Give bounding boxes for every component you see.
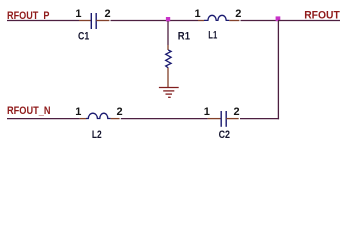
svg-text:2: 2	[105, 8, 111, 20]
wire L1 to junction B	[241, 20, 279, 22]
svg-text:1: 1	[204, 106, 210, 118]
wire bottom rail left (RFOUT_N to L2)	[7, 118, 80, 120]
svg-text:2: 2	[116, 106, 122, 118]
svg-text:1: 1	[75, 106, 81, 118]
wire L2 to C2	[121, 118, 208, 120]
wire R1 pin2 stub	[167, 68, 169, 88]
junction at node B	[276, 16, 281, 21]
capacitor C1	[91, 13, 96, 29]
junction at node A	[166, 17, 170, 22]
svg-text:1: 1	[75, 8, 81, 20]
svg-text:C2: C2	[219, 129, 230, 141]
wire C1 pin2 stub	[96, 20, 109, 22]
inductor L2	[86, 113, 111, 118]
svg-text:R1: R1	[178, 31, 190, 43]
wire junction to L1	[168, 20, 198, 22]
wire C2 pin1 stub	[208, 118, 221, 120]
wire C2 to corner	[240, 118, 279, 120]
wire top rail left (RFOUT_P to C1 pin1)	[7, 20, 79, 22]
svg-text:RFOUT: RFOUT	[304, 10, 340, 22]
wire C1 pin1 stub	[79, 20, 91, 22]
wire C2 pin2 stub	[226, 118, 239, 120]
capacitor C2	[221, 111, 226, 127]
svg-text:2: 2	[235, 8, 241, 20]
ground	[159, 88, 179, 98]
svg-text:2: 2	[234, 106, 240, 118]
svg-text:RFOUT_N: RFOUT_N	[7, 105, 51, 117]
svg-text:L2: L2	[92, 129, 102, 141]
wire L1 pin1 stub	[198, 20, 204, 22]
wire L1 pin2 stub	[229, 20, 239, 22]
svg-text:1: 1	[194, 8, 200, 20]
wire junction B down to bottom rail	[277, 21, 279, 119]
wire junction B to RFOUT	[278, 20, 340, 22]
inductor L1	[204, 15, 229, 20]
svg-text:L1: L1	[208, 30, 217, 42]
wire junction down to R1	[167, 21, 169, 45]
wire R1 pin1 stub	[167, 45, 169, 50]
resistor R1	[166, 50, 171, 68]
wire L2 pin2 stub	[111, 118, 120, 120]
wire L2 pin1 stub	[80, 118, 87, 120]
svg-text:C1: C1	[78, 31, 89, 43]
wire C1 to junction	[111, 20, 169, 22]
